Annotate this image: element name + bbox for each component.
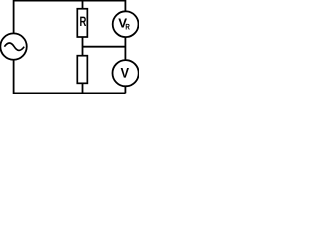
wire: top rail [14,0,126,2]
wire: middle branch bottom stem [82,84,84,94]
resistor R [77,9,87,37]
wire: left rail lower segment [13,60,15,95]
wire: left rail upper segment [13,0,15,33]
wire: right branch bottom stem [124,86,126,93]
wire: horizontal tie from node A to meter branch [83,46,126,48]
AC source [0,33,26,59]
wire: right branch top stem [124,0,126,11]
wire: right branch stem between meters [124,37,126,60]
wire: middle branch top stem [82,1,84,9]
wire: middle branch stem between components (node A) [82,37,84,56]
voltmeter V [113,60,139,86]
wire: bottom rail [14,92,126,94]
voltmeter VR [113,11,139,37]
resistor (unlabeled box) [77,56,87,84]
